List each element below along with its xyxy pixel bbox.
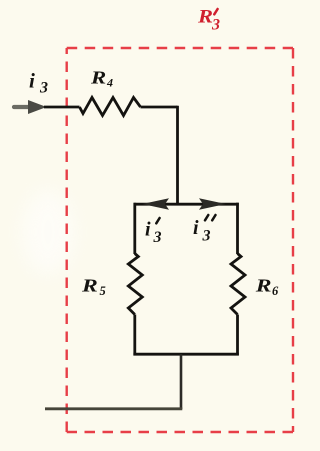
wire corner down to split node <box>176 106 179 204</box>
current arrow i''3 (right) <box>199 198 226 209</box>
svg-text:i: i <box>193 217 199 239</box>
svg-text:6: 6 <box>272 284 279 298</box>
svg-text:i: i <box>29 69 35 93</box>
svg-text:5: 5 <box>100 284 106 298</box>
label R4 <box>90 68 113 90</box>
svg-text:R: R <box>90 68 106 88</box>
label R'3 <box>197 7 220 34</box>
bottom join bar <box>133 353 238 356</box>
wire drop from join <box>180 354 183 409</box>
wire left branch top <box>133 203 136 254</box>
label R6 <box>254 276 279 299</box>
svg-text:4: 4 <box>106 76 113 90</box>
label i'3 <box>145 219 162 247</box>
svg-text:R: R <box>81 276 98 296</box>
wire left branch bottom <box>133 315 136 356</box>
svg-text:i: i <box>145 219 151 241</box>
label i3 <box>29 69 48 97</box>
label R5 <box>81 276 106 299</box>
node split bar <box>134 203 239 206</box>
label i''3 <box>193 217 211 245</box>
svg-text:3: 3 <box>211 17 220 34</box>
wire R4 to corner <box>141 106 178 109</box>
resistor R6 <box>231 254 245 315</box>
svg-text:R: R <box>197 7 213 28</box>
resistor R5 <box>128 254 142 315</box>
svg-text:3: 3 <box>39 80 48 97</box>
resistor R4 <box>80 98 141 116</box>
svg-text:R: R <box>254 276 271 296</box>
svg-text:3: 3 <box>153 229 162 246</box>
wire right branch bottom <box>236 315 239 356</box>
dashed boundary box R'3 <box>67 48 293 432</box>
svg-text:3: 3 <box>202 228 211 245</box>
wire input to R4 <box>44 106 80 109</box>
wire exit bottom left <box>45 407 182 410</box>
current arrow i'3 (left) <box>142 198 169 209</box>
wire right branch top <box>236 203 239 254</box>
current source arrow i3 <box>14 100 47 114</box>
